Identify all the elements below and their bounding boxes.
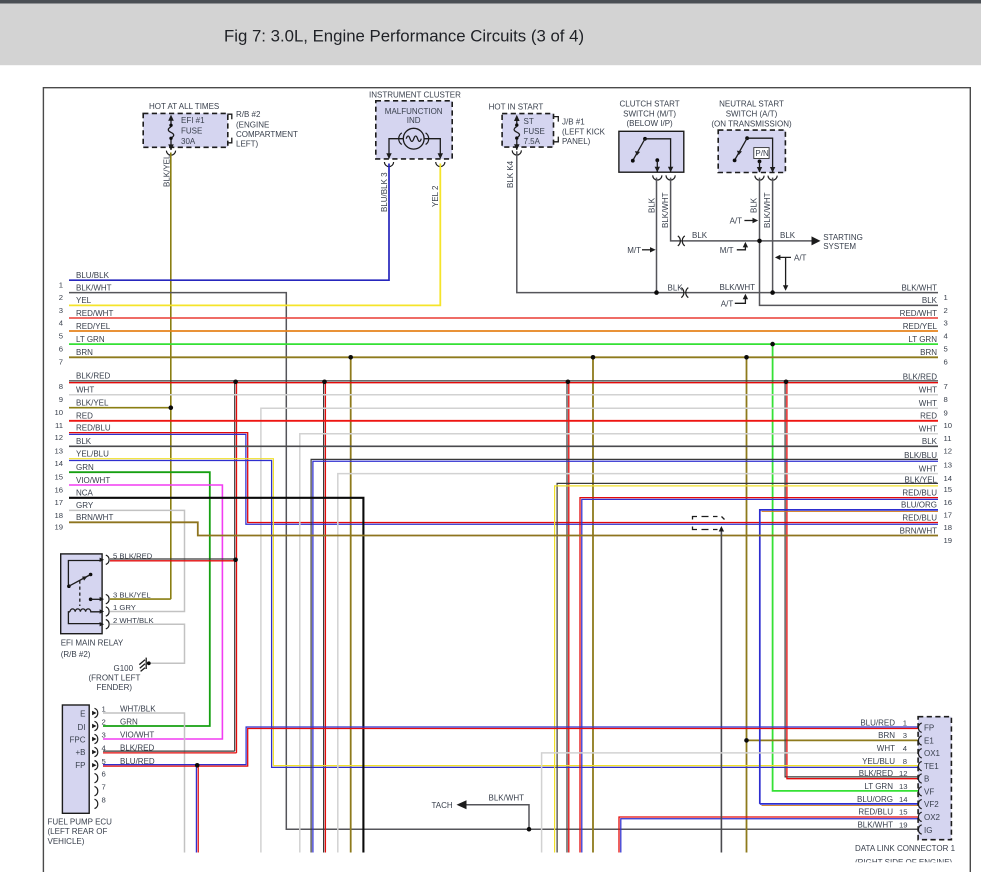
bracket R/B #2: [227, 114, 232, 143]
svg-text:(R/B #2): (R/B #2): [61, 650, 91, 659]
svg-text:19: 19: [944, 536, 953, 545]
svg-text:COMPARTMENT: COMPARTMENT: [236, 130, 298, 139]
svg-text:BLK: BLK: [750, 197, 759, 213]
annotation M/T arrow at clutch BLK: [627, 246, 656, 255]
wire RED/BLU to OX2 from off page: [619, 817, 918, 853]
relay pin 2 WHT/BLK: [100, 616, 185, 664]
svg-text:18: 18: [54, 511, 63, 520]
wire BLK/YEL fuse to relay pin 3 vertical: [170, 153, 172, 600]
svg-text:INSTRUMENT CLUSTER: INSTRUMENT CLUSTER: [369, 91, 461, 100]
wire RED row 11: [55, 412, 938, 431]
svg-text:DI: DI: [78, 723, 86, 732]
svg-text:11: 11: [55, 421, 63, 430]
wire BLK/RED row 8 (black+red pair): [59, 372, 938, 392]
svg-text:RED/WHT: RED/WHT: [900, 309, 937, 318]
connector dashed option box on row 18: [693, 517, 725, 530]
svg-text:BLK: BLK: [76, 437, 92, 446]
svg-text:BRN: BRN: [76, 348, 93, 357]
ECU FUEL PUMP ECU box: [48, 705, 113, 846]
svg-text:BLK: BLK: [922, 296, 938, 305]
wire VIO/WHT row 16 down at 222 to ECU pin 3: [54, 476, 222, 739]
label J/B #1 (LEFT KICK PANEL): [562, 118, 606, 146]
connector DLC pin cups: [918, 723, 921, 834]
svg-text:2: 2: [59, 293, 63, 302]
svg-text:10: 10: [54, 408, 63, 417]
svg-text:15: 15: [54, 473, 63, 482]
annotation A/T elbow up to row 1: [721, 294, 748, 309]
wire RED/BLU row 12 (red+blue pair) down at 247 and lower run: [54, 423, 938, 524]
ECU pin 2 GRN: [92, 718, 138, 731]
wire BLU/RED from ECU pin 5 with jog up to FP row: [103, 727, 918, 766]
svg-text:LT GRN: LT GRN: [864, 782, 893, 791]
relay pin 3 BLK/YEL: [100, 591, 171, 604]
svg-text:16: 16: [54, 485, 63, 494]
annotation M/T elbow up: [720, 242, 748, 255]
svg-text:15: 15: [899, 808, 908, 817]
svg-text:M/T: M/T: [720, 246, 734, 255]
svg-text:BLK/WHT: BLK/WHT: [763, 192, 772, 228]
svg-text:2: 2: [102, 718, 106, 727]
svg-text:8: 8: [102, 796, 106, 805]
svg-text:(ENGINE: (ENGINE: [236, 120, 269, 129]
svg-text:5: 5: [944, 345, 948, 354]
svg-text:DATA LINK CONNECTOR 1: DATA LINK CONNECTOR 1: [855, 844, 956, 853]
svg-text:7: 7: [59, 358, 63, 367]
relay pin 1 GRY: [100, 603, 136, 616]
svg-text:BLK K4: BLK K4: [506, 160, 515, 188]
svg-text:RED: RED: [76, 412, 93, 421]
svg-text:SWITCH (A/T): SWITCH (A/T): [726, 110, 778, 119]
wire BLK/WHT row 2 left, down at 286 and bottom run to IG: [59, 283, 918, 829]
svg-text:8: 8: [59, 382, 63, 391]
svg-text:BLK/WHT: BLK/WHT: [661, 192, 670, 228]
svg-text:8: 8: [944, 395, 948, 404]
svg-text:TE1: TE1: [924, 762, 939, 771]
wire GRY row 18 down at 184.5 to relay pin 1: [54, 501, 184, 611]
svg-text:12: 12: [899, 769, 908, 778]
svg-text:BLK/WHT: BLK/WHT: [857, 820, 893, 829]
svg-text:1: 1: [944, 293, 948, 302]
svg-text:+B: +B: [75, 748, 85, 757]
svg-text:WHT: WHT: [919, 464, 937, 473]
svg-text:VF: VF: [924, 787, 934, 796]
svg-text:6: 6: [944, 358, 948, 367]
svg-text:BLK/BLU: BLK/BLU: [904, 451, 937, 460]
svg-text:7.5A: 7.5A: [524, 137, 541, 146]
svg-text:EFI MAIN RELAY: EFI MAIN RELAY: [61, 639, 124, 648]
svg-text:P/N: P/N: [755, 149, 769, 158]
svg-text:WHT: WHT: [919, 425, 937, 434]
svg-text:4: 4: [903, 744, 908, 753]
svg-text:FUSE: FUSE: [524, 127, 545, 136]
node junction BLK at starting system: [757, 239, 762, 244]
relay EFI MAIN RELAY box: [61, 554, 124, 659]
svg-text:12: 12: [54, 433, 63, 442]
svg-text:HOT AT ALL TIMES: HOT AT ALL TIMES: [149, 102, 219, 111]
svg-text:BLU/BLK 3: BLU/BLK 3: [380, 172, 389, 212]
svg-text:1: 1: [903, 718, 907, 727]
svg-text:13: 13: [944, 461, 953, 470]
svg-text:VEHICLE): VEHICLE): [48, 837, 85, 846]
svg-text:BLK: BLK: [692, 231, 708, 240]
svg-text:8: 8: [903, 757, 907, 766]
ECU pin 6 empty: [95, 770, 106, 783]
svg-text:1 GRY: 1 GRY: [113, 603, 136, 612]
svg-text:(ON TRANSMISSION): (ON TRANSMISSION): [711, 120, 792, 129]
neutral start switch box: [711, 100, 792, 173]
ECU pin 4 BLK/RED: [92, 744, 236, 757]
svg-text:BRN/WHT: BRN/WHT: [76, 513, 113, 522]
svg-text:BLU/RED: BLU/RED: [860, 718, 895, 727]
wire WHT right row 14 corner at 338: [338, 474, 938, 853]
svg-text:4: 4: [59, 318, 64, 327]
svg-text:GRY: GRY: [76, 501, 94, 510]
ECU pin 5 BLU/RED: [92, 757, 155, 770]
wire NCA row 17 down at 363: [54, 489, 363, 853]
svg-text:FUEL PUMP ECU: FUEL PUMP ECU: [48, 818, 113, 827]
wire BLK/YEL right row 15 corner at 556: [555, 483, 938, 852]
wire WHT right row 9 corner at 261: [261, 408, 938, 852]
ground G100: [89, 658, 151, 692]
svg-text:14: 14: [54, 459, 63, 468]
fuse EFI #1 symbol: [166, 115, 175, 156]
top dark bar: [0, 0, 981, 4]
svg-text:FP: FP: [924, 724, 934, 733]
wire BLK/WHT to TACH: [432, 794, 532, 832]
label STARTING SYSTEM: [823, 233, 863, 251]
connector DLC wire labels: [857, 718, 908, 829]
svg-text:14: 14: [899, 795, 908, 804]
svg-text:BLU/ORG: BLU/ORG: [857, 795, 893, 804]
svg-text:7: 7: [944, 382, 948, 391]
svg-text:13: 13: [54, 447, 63, 456]
svg-text:FENDER): FENDER): [97, 683, 133, 692]
lamp MALFUNCTION IND: [384, 128, 445, 166]
svg-text:RED/WHT: RED/WHT: [76, 309, 113, 318]
svg-text:15: 15: [944, 485, 953, 494]
svg-text:11: 11: [944, 434, 952, 443]
svg-text:4: 4: [944, 331, 949, 340]
wire BLU/RED branch down off page: [195, 763, 200, 853]
svg-text:17: 17: [944, 510, 953, 519]
wire RED/YEL row 5: [59, 322, 938, 341]
svg-text:(BELOW I/P): (BELOW I/P): [626, 119, 673, 128]
svg-text:9: 9: [59, 395, 63, 404]
wire GRN row 15 down at 210 to ECU pin 2: [54, 463, 209, 726]
wire WHT row 9: [59, 386, 938, 405]
svg-text:RED/YEL: RED/YEL: [76, 322, 111, 331]
svg-text:BRN: BRN: [920, 348, 937, 357]
svg-text:MALFUNCTION: MALFUNCTION: [385, 107, 443, 116]
svg-text:B: B: [924, 775, 929, 784]
right edge labels and numbers: [900, 283, 953, 545]
wire BRN branch down at 746.5 to E1 and off page: [744, 355, 918, 853]
svg-text:5: 5: [59, 331, 63, 340]
svg-text:6: 6: [102, 770, 106, 779]
svg-text:BLK: BLK: [922, 437, 938, 446]
ECU pin 3 VIO/WHT: [92, 731, 154, 744]
svg-text:VIO/WHT: VIO/WHT: [76, 476, 110, 485]
fuse ST symbol: [512, 115, 521, 155]
wire BLK/WHT clutch to starting system: [671, 178, 812, 241]
svg-text:BLK/YEL: BLK/YEL: [905, 475, 938, 484]
arrow STARTING SYSTEM: [812, 236, 821, 245]
node neutral BLK/WHT joins row: [770, 290, 775, 295]
svg-text:A/T: A/T: [721, 299, 734, 308]
svg-text:3: 3: [944, 318, 948, 327]
relay pin 5 BLK/RED: [100, 551, 238, 564]
svg-text:BLK/RED: BLK/RED: [76, 372, 110, 381]
svg-text:BLK/WHT: BLK/WHT: [76, 283, 112, 292]
svg-text:BLK: BLK: [668, 284, 684, 293]
svg-text:STARTING: STARTING: [823, 233, 863, 242]
svg-text:3: 3: [59, 306, 63, 315]
svg-text:EFI #1: EFI #1: [181, 116, 205, 125]
svg-text:9: 9: [944, 409, 948, 418]
wire BLK/RED branch at 567.9 off page: [566, 380, 571, 853]
svg-text:NCA: NCA: [76, 489, 94, 498]
svg-text:BRN: BRN: [878, 731, 895, 740]
wire WHT from off page up to OX1: [542, 753, 918, 853]
svg-text:RED/BLU: RED/BLU: [76, 423, 111, 432]
wire YEL row 3: [59, 164, 441, 315]
fuse EFI #1 box (R/B #2): [143, 102, 228, 148]
svg-text:R/B #2: R/B #2: [236, 110, 261, 119]
svg-text:Fig 7: 3.0L, Engine Performanc: Fig 7: 3.0L, Engine Performance Circuits…: [224, 27, 584, 46]
annotation A/T arrow at neutral BLK: [730, 217, 759, 226]
relay internal switch and coil: [67, 561, 100, 624]
svg-text:YEL/BLU: YEL/BLU: [76, 450, 109, 459]
svg-text:J/B #1: J/B #1: [562, 118, 585, 127]
svg-text:19: 19: [899, 820, 908, 829]
svg-text:NEUTRAL START: NEUTRAL START: [719, 100, 784, 109]
svg-text:BRN/WHT: BRN/WHT: [900, 526, 937, 535]
svg-text:3: 3: [102, 731, 106, 740]
svg-text:YEL 2: YEL 2: [431, 185, 440, 207]
svg-text:FUSE: FUSE: [181, 127, 202, 136]
svg-text:FPC: FPC: [70, 736, 86, 745]
wire BRN/WHT row 19 with jog at 198: [54, 513, 938, 535]
ECU pin 8 empty: [95, 796, 106, 809]
svg-text:E1: E1: [924, 736, 934, 745]
svg-text:E: E: [80, 710, 85, 719]
svg-text:2: 2: [944, 306, 948, 315]
wire BLK/BLU right row 13 corner at 312: [311, 459, 938, 852]
svg-text:BLK/RED: BLK/RED: [903, 373, 937, 382]
instrument cluster box: [369, 91, 461, 159]
svg-text:CLUTCH START: CLUTCH START: [620, 100, 680, 109]
svg-text:18: 18: [944, 523, 953, 532]
svg-text:RED/BLU: RED/BLU: [902, 513, 937, 522]
wire BLK/RED branch at 786 to pin B: [784, 380, 918, 779]
wire BLU/BLK row 1: [59, 164, 389, 290]
fuse ST box (J/B #1): [489, 103, 554, 148]
svg-text:BLK/YEL: BLK/YEL: [76, 399, 109, 408]
svg-text:10: 10: [944, 421, 953, 430]
svg-text:7: 7: [102, 783, 106, 792]
svg-text:BLK/WHT: BLK/WHT: [901, 283, 937, 292]
svg-text:BLU/ORG: BLU/ORG: [901, 501, 937, 510]
svg-text:BLK/WHT: BLK/WHT: [489, 794, 525, 803]
ECU pin 7 empty: [95, 783, 106, 796]
wire BLK/YEL row 10 left to fuse vertical: [54, 399, 173, 418]
wire BRN row 7: [59, 348, 938, 367]
neutral switch symbol: [733, 136, 778, 180]
svg-text:BLK/RED: BLK/RED: [859, 769, 893, 778]
clutch switch symbol: [631, 137, 675, 180]
svg-text:ST: ST: [524, 117, 534, 126]
wire BLK clutch switch down: [656, 178, 658, 293]
svg-text:WHT: WHT: [877, 744, 895, 753]
ECU pin 1 WHT/BLK: [92, 705, 184, 853]
svg-text:FP: FP: [75, 761, 85, 770]
svg-text:TACH: TACH: [432, 801, 453, 810]
svg-text:SYSTEM: SYSTEM: [823, 242, 856, 251]
bracket J/B #1: [554, 117, 559, 142]
clutch start switch box: [619, 100, 684, 173]
svg-text:BLK: BLK: [780, 231, 796, 240]
svg-text:1: 1: [59, 281, 63, 290]
svg-text:19: 19: [54, 523, 63, 532]
wire BRN branch down at 593: [591, 355, 596, 853]
node clutch BLK joins row: [654, 290, 659, 295]
connector on row BLK/WHT at 684: [681, 288, 688, 298]
svg-text:G100: G100: [114, 664, 134, 673]
svg-text:16: 16: [944, 498, 953, 507]
wire RED/BLU right row 16 corner at 580: [580, 498, 938, 853]
wire BLK/WHT neutral switch down to row 1 junction: [772, 178, 774, 293]
svg-text:YEL/BLU: YEL/BLU: [862, 757, 895, 766]
svg-text:17: 17: [54, 498, 63, 507]
wire BLK from option connector down off page: [719, 526, 724, 853]
svg-text:VIO/WHT: VIO/WHT: [120, 731, 154, 740]
svg-text:PANEL): PANEL): [562, 137, 591, 146]
svg-text:LT GRN: LT GRN: [76, 335, 105, 344]
wire LT GRN row 6: [59, 335, 938, 354]
svg-text:VF2: VF2: [924, 800, 939, 809]
wire BLK/RED branch at 235.6 to relay pin5 and ECU pin4: [233, 380, 238, 753]
svg-text:14: 14: [944, 474, 953, 483]
svg-text:BLK/WHT: BLK/WHT: [720, 283, 756, 292]
svg-text:YEL: YEL: [76, 296, 92, 305]
svg-text:(LEFT KICK: (LEFT KICK: [562, 127, 606, 136]
svg-text:RED/YEL: RED/YEL: [903, 322, 938, 331]
wire BLK neutral switch down to row 2: [760, 178, 939, 306]
svg-text:RED/BLU: RED/BLU: [858, 808, 893, 817]
svg-text:13: 13: [899, 782, 908, 791]
svg-text:WHT: WHT: [76, 386, 94, 395]
svg-text:WHT: WHT: [919, 399, 937, 408]
wire BLK row 13: [54, 437, 938, 456]
svg-text:30A: 30A: [181, 137, 196, 146]
svg-text:A/T: A/T: [730, 217, 743, 226]
connector on BLK wire at 681: [678, 236, 685, 246]
svg-text:(FRONT LEFT: (FRONT LEFT: [89, 673, 141, 682]
svg-text:HOT IN START: HOT IN START: [489, 103, 544, 112]
svg-text:BLK/YEL: BLK/YEL: [162, 154, 171, 187]
svg-text:LT GRN: LT GRN: [908, 335, 937, 344]
title band: [0, 4, 981, 66]
wire BLK/RED branch at 324.5 off page: [322, 380, 327, 853]
connector DATA LINK CONNECTOR 1 box: [855, 717, 956, 867]
wire BLU/ORG right row 17 corner at 760 to VF2: [760, 510, 938, 806]
wire RED/WHT row 4: [59, 309, 938, 328]
svg-text:GRN: GRN: [120, 718, 138, 727]
svg-text:OX2: OX2: [924, 813, 941, 822]
svg-text:M/T: M/T: [627, 246, 641, 255]
svg-text:OX1: OX1: [924, 749, 941, 758]
wire BRN branch down at 350.7: [348, 355, 353, 853]
svg-text:WHT: WHT: [919, 386, 937, 395]
svg-text:RED: RED: [920, 412, 937, 421]
svg-text:RED/BLU: RED/BLU: [902, 488, 937, 497]
label R/B #2 (ENGINE COMPARTMENT LEFT): [236, 110, 298, 149]
svg-text:LEFT): LEFT): [236, 140, 259, 149]
wire LT GRN branch to VF: [770, 342, 918, 791]
wire BLK from ST fuse down and right (row 1 right): [517, 151, 938, 292]
svg-text:(LEFT REAR OF: (LEFT REAR OF: [48, 827, 108, 836]
svg-text:6: 6: [59, 345, 63, 354]
svg-text:3: 3: [903, 731, 907, 740]
svg-text:12: 12: [944, 447, 953, 456]
wire WHT right row 11 corner at 300: [300, 434, 938, 853]
svg-text:BLK: BLK: [648, 197, 657, 213]
svg-text:IG: IG: [924, 826, 932, 835]
svg-text:GRN: GRN: [76, 463, 94, 472]
svg-text:BLU/BLK: BLU/BLK: [76, 271, 110, 280]
svg-text:A/T: A/T: [794, 253, 807, 262]
svg-text:SWITCH (M/T): SWITCH (M/T): [623, 110, 676, 119]
svg-text:IND: IND: [407, 116, 421, 125]
annotation A/T left arrow with dropper: [775, 253, 807, 290]
wire YEL/BLU row 14 (yellow+blue pair) down at 273 to TE1: [54, 450, 918, 768]
